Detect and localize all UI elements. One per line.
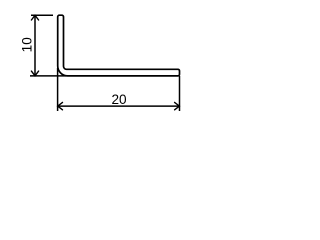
svg-text:10: 10 [19,37,34,53]
svg-text:20: 20 [111,92,127,107]
